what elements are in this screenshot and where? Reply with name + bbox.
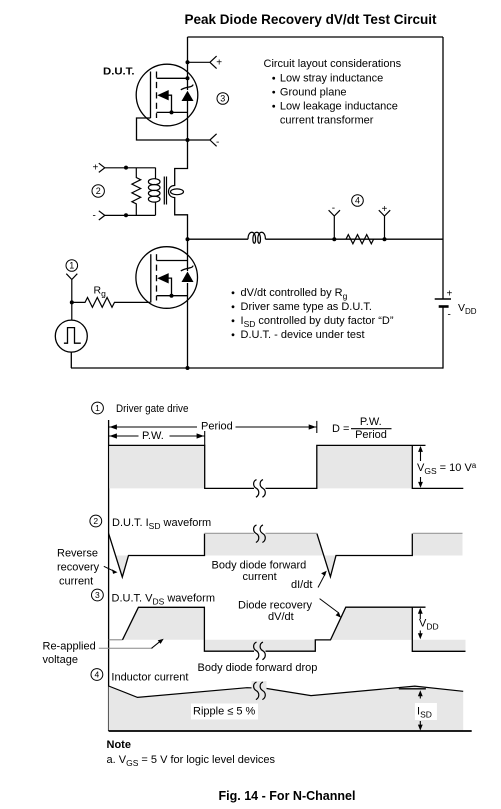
wire pulse generator to bottom rail	[70, 352, 72, 368]
marker 1 waveform	[92, 402, 104, 414]
battery VDD	[435, 298, 451, 300]
svg-text:+: +	[216, 58, 222, 69]
transistor Q1 D.U.T.	[136, 64, 198, 140]
transistor Q2 (driver)	[136, 247, 198, 309]
label bullet D.U.T. device under test	[232, 333, 235, 336]
waveform 3 pre-pulse level line	[109, 639, 123, 641]
transformer core	[164, 177, 166, 205]
svg-text:-: -	[93, 210, 96, 221]
svg-text:-: -	[448, 310, 451, 321]
svg-text:current: current	[243, 571, 277, 583]
node transformer - wire	[124, 213, 128, 217]
marker 3	[217, 93, 229, 105]
wire lower mosfet diode to bottom rail	[187, 283, 189, 368]
transformer secondary single turn	[169, 186, 175, 198]
svg-text:-: -	[332, 203, 335, 214]
break symbol waveform 2	[254, 525, 266, 543]
svg-text:Body diode forward drop: Body diode forward drop	[198, 662, 318, 674]
wire left rail upper (drain of DUT)	[187, 37, 189, 90]
label bullet low leakage inductance	[272, 105, 275, 108]
svg-text:D.U.T. ISD waveform: D.U.T. ISD waveform	[112, 517, 211, 531]
waveform 2 gray fill	[115, 556, 128, 578]
dimension VGS	[420, 447, 422, 486]
svg-text:Diode recovery: Diode recovery	[238, 599, 312, 611]
svg-text:Inductor current: Inductor current	[111, 672, 188, 684]
Q2 body arrow	[157, 273, 169, 283]
node Q1 drain	[186, 76, 190, 80]
probe + upper (wire and fork)	[188, 56, 217, 69]
Q1 body arrow	[157, 90, 169, 100]
node Q2 source to bottom rail	[186, 366, 190, 370]
svg-text:P.W.: P.W.	[360, 416, 382, 428]
svg-text:recovery: recovery	[57, 562, 100, 574]
node probe - junction	[332, 237, 336, 241]
break symbol waveform 4	[252, 681, 267, 700]
svg-text:current: current	[59, 576, 93, 588]
label ripple	[191, 704, 258, 720]
wire transformer secondary bottom to lower mosfet	[175, 197, 188, 271]
transformer T1 primary winding	[148, 168, 160, 216]
wire mid rail to inductor	[188, 238, 444, 240]
node Q1 source-body	[170, 110, 174, 114]
svg-text:+: +	[93, 163, 99, 174]
pulse generator V1	[55, 320, 87, 352]
dimension ISD	[415, 703, 437, 720]
wire bottom rail	[71, 367, 443, 369]
waveform 3 gray fill	[123, 607, 205, 640]
waveform 2 trace	[109, 533, 413, 577]
svg-text:current transformer: current transformer	[280, 115, 374, 127]
svg-text:dI/dt: dI/dt	[291, 579, 312, 591]
marker 4 waveform	[91, 669, 103, 681]
node transformer + wire	[124, 166, 128, 170]
node Q2 source-body	[170, 294, 174, 298]
svg-text:ISD controlled by duty factor: ISD controlled by duty factor “D”	[241, 315, 394, 329]
svg-text:D.U.T.: D.U.T.	[103, 66, 135, 78]
waveform 4 baseline	[109, 730, 472, 732]
marker 4	[352, 195, 364, 207]
wire DUT source to transformer	[175, 101, 188, 187]
node Q2 drain junction	[186, 237, 190, 241]
pointer reverse recovery	[104, 566, 114, 571]
pointer diode recovery	[320, 599, 339, 613]
node - probe junction (DUT source)	[186, 138, 190, 142]
marker 2 waveform	[90, 515, 102, 527]
svg-text:Driver same type as D.U.T.: Driver same type as D.U.T.	[241, 301, 372, 313]
waveform 4 gray fill	[109, 686, 464, 731]
svg-text:D =: D =	[332, 423, 349, 435]
break symbol waveform 3	[254, 642, 266, 660]
waveform 1 trace	[109, 445, 464, 488]
svg-text:Low stray inductance: Low stray inductance	[280, 72, 383, 84]
svg-text:Fig. 14 - For N-Channel: Fig. 14 - For N-Channel	[219, 789, 356, 803]
svg-text:+: +	[447, 289, 453, 300]
resistor R sense	[346, 235, 374, 244]
probe 1 fork	[66, 274, 77, 321]
svg-text:2: 2	[93, 516, 98, 526]
svg-text:4: 4	[355, 196, 360, 206]
wire waveform 2 top level line (gray)	[205, 532, 317, 534]
svg-text:2: 2	[96, 186, 101, 196]
svg-text:voltage: voltage	[43, 654, 78, 666]
axis vertical	[108, 420, 110, 731]
svg-text:Peak Diode Recovery dV/dt Test: Peak Diode Recovery dV/dt Test Circuit	[185, 12, 438, 27]
wire top rail	[188, 36, 444, 38]
label bullet dV/dt controlled by Rg	[232, 291, 235, 294]
svg-text:Period: Period	[201, 421, 233, 433]
probe - upper (wire and fork)	[188, 134, 217, 147]
inductor L1	[248, 232, 265, 243]
wire right rail lower	[442, 307, 444, 369]
node probe + junction	[383, 237, 387, 241]
pointer dI/dt	[318, 574, 325, 587]
svg-text:dV/dt: dV/dt	[268, 611, 294, 623]
svg-text:Driver gate drive: Driver gate drive	[116, 403, 189, 415]
waveform 4 trace	[109, 686, 464, 697]
svg-text:1: 1	[95, 403, 100, 413]
marker 1	[66, 260, 78, 272]
Q1 body diode	[182, 91, 194, 101]
svg-text:1: 1	[69, 261, 74, 271]
label bullet ISD controlled by duty factor D	[232, 319, 235, 322]
svg-text:3: 3	[95, 590, 100, 600]
marker 3 waveform	[92, 589, 104, 601]
node + probe junction top	[186, 60, 190, 64]
dimension VDD	[419, 609, 421, 638]
waveform 1 gray fill	[109, 445, 205, 488]
svg-text:Circuit layout considerations: Circuit layout considerations	[264, 58, 402, 70]
node gate drive junction	[70, 300, 74, 304]
svg-text:Reverse: Reverse	[57, 548, 98, 560]
svg-text:-: -	[216, 137, 219, 148]
dimension P.W.	[204, 431, 206, 445]
svg-text:Ground plane: Ground plane	[280, 86, 347, 98]
label bullet ground plane	[272, 91, 275, 94]
svg-text:4: 4	[95, 670, 100, 680]
svg-text:Ripple ≤ 5 %: Ripple ≤ 5 %	[193, 706, 256, 718]
svg-text:Low leakage inductance: Low leakage inductance	[280, 101, 398, 113]
wire right rail upper	[442, 37, 444, 299]
svg-text:Re-applied: Re-applied	[43, 641, 96, 653]
break symbol waveform 1	[254, 480, 266, 498]
svg-text:Body diode forward: Body diode forward	[212, 559, 307, 571]
resistor Rg	[72, 298, 151, 308]
resistor R burden	[132, 168, 141, 216]
svg-text:Note: Note	[107, 739, 131, 751]
label bullet driver same type as D.U.T.	[232, 305, 235, 308]
tick ISD level	[399, 688, 426, 690]
svg-text:D.U.T. - device under test: D.U.T. - device under test	[241, 329, 365, 341]
svg-text:dV/dt controlled by Rg: dV/dt controlled by Rg	[241, 287, 348, 301]
waveform 3 trace	[123, 607, 466, 651]
marker 2	[92, 185, 104, 197]
dimension period	[316, 421, 318, 433]
svg-text:P.W.: P.W.	[142, 430, 164, 442]
svg-text:Period: Period	[355, 429, 387, 441]
pointer re-applied	[99, 647, 153, 649]
svg-text:3: 3	[220, 94, 225, 104]
label bullet low stray inductance	[272, 77, 275, 80]
Q2 body diode	[182, 272, 194, 283]
